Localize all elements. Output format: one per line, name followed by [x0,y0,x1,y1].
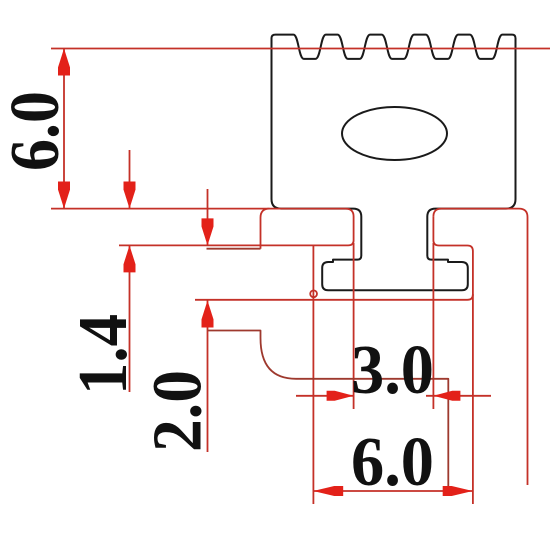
svg-text:6.0: 6.0 [0,91,74,171]
svg-text:6.0: 6.0 [351,424,434,501]
svg-text:1.4: 1.4 [65,314,142,395]
svg-text:3.0: 3.0 [351,332,434,409]
svg-text:2.0: 2.0 [140,370,217,452]
